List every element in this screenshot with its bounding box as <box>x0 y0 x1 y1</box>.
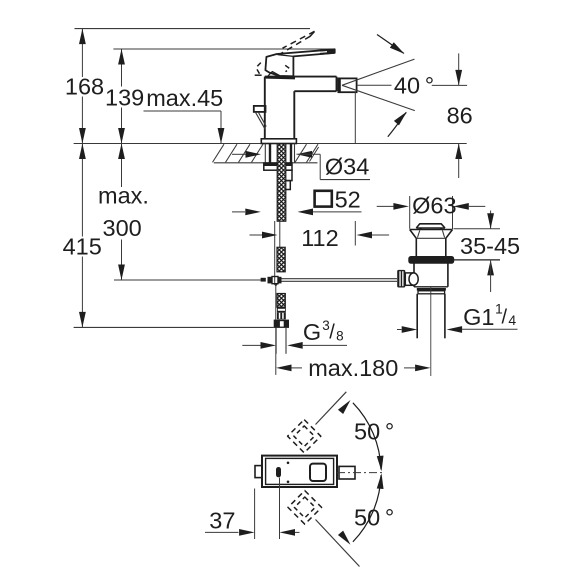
arrow left sq52 right <box>298 209 314 216</box>
pop-up rod guide <box>281 170 292 180</box>
svg-text:max.180: max.180 <box>308 355 398 381</box>
svg-text:/: / <box>329 322 335 344</box>
arrow up max.300 below counter <box>118 144 125 160</box>
dimension 112 <box>250 234 263 236</box>
arrow up 415 below counter <box>79 144 86 160</box>
arrow down 415 at bottom <box>79 312 86 328</box>
pop-up vertical rod <box>274 221 276 284</box>
svg-text:Ø34: Ø34 <box>325 154 369 180</box>
arrow right 112 at hose <box>262 232 278 239</box>
dimension 35-45 <box>490 211 492 229</box>
flange bowl taper <box>410 230 417 239</box>
svg-text:max.: max. <box>98 182 149 208</box>
tee coupling of pop-up rod <box>261 278 266 282</box>
threaded shank walls <box>264 144 266 164</box>
svg-text:4: 4 <box>508 312 516 328</box>
plan view outer body <box>262 456 337 487</box>
arrow down 86 at spout level <box>455 70 462 86</box>
rubber seal ring <box>409 257 454 264</box>
dimension dia63 <box>377 205 394 207</box>
dashed handle position upper inner <box>294 426 315 447</box>
50 deg arc lower <box>353 475 381 542</box>
arrow down max.45 at counter <box>218 128 225 144</box>
max.45 extension down <box>220 111 222 144</box>
spray fan 40 degrees <box>342 59 415 85</box>
dashed handle position lower inner <box>294 497 315 518</box>
reference line top of lever <box>113 48 333 50</box>
arrow right at pipe left edge <box>261 342 277 349</box>
50 deg line lower <box>316 520 360 567</box>
svg-text:8: 8 <box>336 328 344 343</box>
dimension 86 <box>458 53 460 85</box>
arrow right sq52 left <box>245 209 261 216</box>
dimension 168 line <box>81 29 83 77</box>
plan view inner body <box>266 458 334 484</box>
arrow right G1-1/4 <box>402 326 418 333</box>
svg-text:50 °: 50 ° <box>354 419 394 445</box>
counter bottom line <box>214 162 318 164</box>
tick upper 35-45 <box>454 228 501 230</box>
extension line aerator face lower <box>354 221 356 246</box>
arrow left dia63 <box>453 203 469 210</box>
tail nut <box>417 288 446 291</box>
deck hatching left <box>213 144 225 162</box>
arrow up 139 <box>118 49 125 65</box>
counter top line <box>74 143 467 145</box>
faucet base plate <box>261 139 296 144</box>
side tab (temperature stop) <box>254 106 266 112</box>
plan view left tab <box>255 466 262 478</box>
svg-text:G: G <box>303 319 321 345</box>
svg-text:300: 300 <box>103 215 142 241</box>
svg-text:G1: G1 <box>463 304 494 330</box>
arrow down 139 at counter <box>118 128 125 144</box>
faucet body right edge <box>293 91 295 139</box>
lever base wedge <box>268 72 280 76</box>
faucet body spout arm <box>265 76 337 78</box>
svg-text:40 °: 40 ° <box>394 73 434 99</box>
50 deg line upper <box>316 392 347 425</box>
mounting nut <box>264 163 292 170</box>
svg-text:415: 415 <box>63 234 102 260</box>
tick spout height <box>432 84 467 86</box>
svg-text:Ø63: Ø63 <box>412 193 456 219</box>
deck hatching right <box>295 144 307 162</box>
extension line aerator face upper <box>354 92 356 143</box>
50 deg arc upper <box>353 403 381 470</box>
extension line flange left <box>409 196 411 229</box>
arrow up 35-45 <box>487 260 494 276</box>
square symbol <box>315 191 332 207</box>
svg-text:max.45: max.45 <box>146 85 223 111</box>
extension line flange right <box>452 196 454 229</box>
arrow left dia34 right <box>297 151 313 158</box>
arrow right 37 <box>239 529 255 536</box>
svg-text:35-45: 35-45 <box>460 233 520 259</box>
dimension 415 line <box>81 144 83 237</box>
dashed handle position upper outer <box>288 420 321 453</box>
max.300 bottom reference line to tee <box>114 279 261 281</box>
plan view aerator <box>339 466 355 479</box>
aerator <box>338 78 356 92</box>
arrow left max.180 <box>276 365 292 372</box>
svg-text:/: / <box>502 307 508 329</box>
drain body <box>413 263 415 287</box>
knurled knob of pop-up <box>397 270 405 288</box>
arrow up 168 <box>79 29 86 44</box>
flexible hose upper braided <box>277 144 286 221</box>
hose nipple <box>277 307 286 312</box>
dimension dia 34 <box>232 153 246 155</box>
reference line top of raised lever <box>75 28 311 30</box>
dimension max.300 line <box>121 144 123 188</box>
arrow down 35-45 <box>487 213 494 229</box>
svg-text:37: 37 <box>209 508 235 534</box>
arrow right dia34 left <box>246 151 262 158</box>
extension line 37 right <box>279 478 281 540</box>
svg-text:52: 52 <box>335 187 361 213</box>
arrow left 37 <box>280 529 296 536</box>
arrow down 168 at counter <box>79 128 86 144</box>
arrow left 112 at aerator line <box>357 232 373 239</box>
dimension G1 1/4 <box>397 329 402 331</box>
tailpipe <box>416 294 418 339</box>
lever-body joint thick line <box>266 76 295 79</box>
arc arrow upper 40deg <box>377 35 404 54</box>
dashed handle position lower outer <box>288 491 322 525</box>
faucet body left edge <box>264 77 266 139</box>
arrow left at pipe right edge <box>287 342 303 349</box>
supply pipe <box>285 328 287 354</box>
arrow right max.180 <box>415 365 431 372</box>
arc arrow lower 40deg <box>388 112 406 136</box>
max.45 leader line <box>144 110 222 112</box>
knob stem <box>405 273 414 285</box>
lever handle solid <box>265 49 334 76</box>
arrow left G1-1/4 <box>447 326 463 333</box>
horizontal pop-up rod to drain <box>282 278 398 280</box>
drain centerline <box>430 286 432 376</box>
svg-text:112: 112 <box>301 225 338 251</box>
arrow down max.300 at bottom <box>118 265 125 281</box>
dimension 139 line <box>121 49 123 87</box>
lever inner top line <box>278 55 294 57</box>
dimension G3/8 arrows <box>242 344 261 346</box>
pop-up plug cap <box>416 224 445 228</box>
arrow right dia63 <box>393 203 409 210</box>
drain flange <box>410 229 453 231</box>
hex nut G3/8 <box>274 320 289 328</box>
plan view lever pivot blob <box>276 467 281 477</box>
drain neck <box>415 238 417 256</box>
svg-text:86: 86 <box>447 103 473 129</box>
svg-text:50 °: 50 ° <box>354 505 394 531</box>
tick lower 35-45 <box>454 259 501 261</box>
svg-text:168: 168 <box>65 74 104 100</box>
extension line 37 left <box>254 489 256 540</box>
lever handle raised dashed outline <box>283 31 315 48</box>
arrow up 86 at counter <box>455 144 462 160</box>
plan view handle square <box>310 464 326 481</box>
flexible hose braided segment 3 <box>277 294 285 308</box>
plan view centerline <box>337 472 383 474</box>
flexible hose braided segment 2 <box>277 247 285 271</box>
supply pipe left edge / extension line <box>275 284 277 375</box>
svg-text:139: 139 <box>105 85 144 111</box>
415 bottom reference line <box>74 326 274 328</box>
